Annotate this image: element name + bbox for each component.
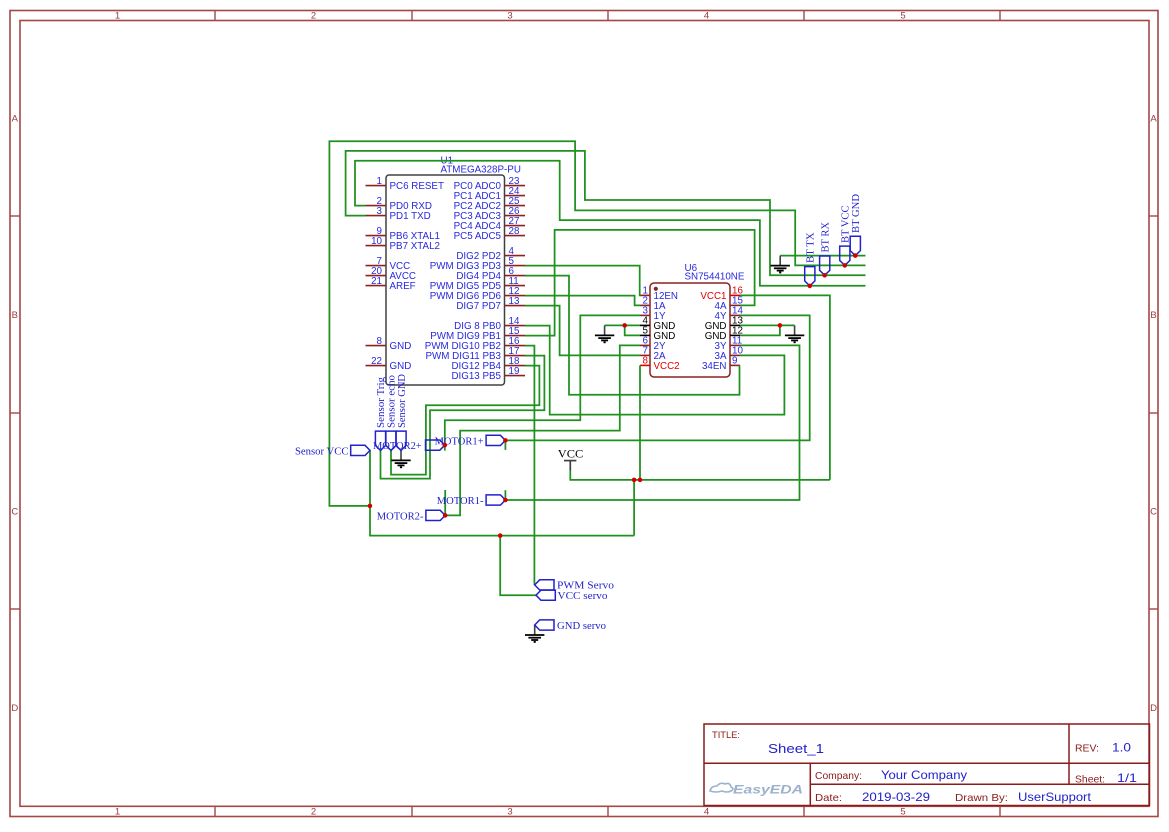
U6 pin 6 2Y [640, 336, 666, 352]
ground near U6 left GND pins [595, 325, 614, 342]
svg-text:D: D [11, 703, 18, 714]
junction Sensor VCC rail [368, 504, 373, 509]
junction BT TX tip [808, 284, 813, 289]
U1 pin 9 PB6 XTAL1 [366, 226, 440, 242]
svg-text:Date:: Date: [815, 792, 842, 804]
wire net 3Y-MOTOR1-: U6 pin11 to MOTOR1- flag [505, 345, 799, 500]
svg-text:8: 8 [643, 356, 649, 367]
svg-text:19: 19 [509, 366, 520, 377]
junction VCC servo branch [498, 533, 503, 538]
junction BT RX tip [822, 273, 827, 278]
svg-text:2: 2 [311, 807, 316, 818]
svg-text:VCC2: VCC2 [654, 361, 680, 372]
wire net PD7-2A: U1 pin13 to U6 pin7 [525, 306, 640, 356]
EasyEDA logo [710, 783, 803, 796]
U1 pin 18 DIG12 PB4 [451, 356, 525, 372]
U1 pin 6 DIG4 PD4 [456, 266, 525, 282]
ground for Sensor GND flag [391, 450, 410, 467]
svg-text:13: 13 [509, 296, 520, 307]
svg-text:21: 21 [371, 276, 382, 287]
svg-text:28: 28 [509, 226, 520, 237]
U1 pin 21 AREF [366, 276, 416, 292]
U6 pin 8 VCC2 [640, 356, 680, 372]
svg-text:BT RX: BT RX [820, 222, 832, 253]
U1 pin 4 DIG2 PD2 [456, 246, 525, 262]
svg-text:Sensor VCC: Sensor VCC [295, 445, 349, 457]
U1 pin 5 PWM DIG3 PD3 [430, 256, 525, 272]
U1 pin 10 PB7 XTAL2 [366, 236, 440, 252]
U1 pin 12 PWM DIG6 PD6 [430, 286, 525, 302]
wire net PB2-PWM_Servo: U1 pin16 to PWM Servo flag [525, 346, 534, 585]
svg-text:3: 3 [377, 206, 383, 217]
wire net VCC1: U6 pin16 to VCC rail [740, 295, 830, 480]
VCC power symbol [558, 449, 584, 471]
svg-text:AREF: AREF [390, 281, 416, 292]
wire stub above MOTOR1- tip [504, 490, 506, 500]
svg-text:MOTOR2+: MOTOR2+ [373, 440, 422, 452]
U6 pin 5 GND [640, 326, 675, 342]
U1 pin 28 PC5 ADC5 [454, 226, 525, 242]
junction U6 left GND [622, 323, 627, 328]
svg-text:Your Company: Your Company [881, 768, 967, 782]
port flag Sensor Trig (rotated) [375, 377, 387, 451]
junction BT VCC tip [843, 263, 848, 268]
svg-text:22: 22 [371, 356, 382, 367]
svg-text:PC6 RESET: PC6 RESET [390, 181, 444, 192]
svg-text:C: C [1150, 507, 1157, 518]
svg-text:VCC: VCC [558, 449, 584, 461]
U1 pin 25 PC2 ADC2 [454, 196, 525, 212]
svg-text:3: 3 [507, 807, 512, 818]
wire net PB3-Sensor_Trig: U1 pin17 to Sensor Trig flag [381, 356, 545, 479]
U6 pin 1 12EN [640, 286, 678, 302]
svg-text:GND: GND [390, 341, 412, 352]
U1 pin 7 VCC [366, 256, 411, 272]
U1 pin 13 DIG7 PD7 [456, 296, 525, 312]
svg-text:5: 5 [900, 11, 905, 22]
svg-text:Company:: Company: [815, 770, 862, 782]
svg-text:A: A [12, 114, 19, 125]
svg-text:3: 3 [507, 11, 512, 22]
port flag BT GND (rotated) [850, 194, 862, 256]
svg-text:2019-03-29: 2019-03-29 [862, 790, 930, 804]
svg-text:34EN: 34EN [702, 361, 727, 372]
wire net BT_TX: U1 PD0 RXD to BT TX flag [355, 161, 866, 286]
svg-text:1: 1 [377, 176, 382, 187]
U6 pin 13 GND [705, 316, 744, 332]
U6 pin 16 VCC1 [700, 286, 743, 302]
wire U6 pin4-pin5 gnd jumper [625, 325, 640, 335]
wire branch to VCC servo flag [500, 536, 536, 596]
U1 pin 15 PWM DIG9 PB1 [430, 326, 525, 342]
wire net BT_VCC: loop left of U1 to BT VCC flag [329, 141, 865, 506]
svg-text:VCC servo: VCC servo [558, 590, 608, 602]
wire U6 right GND pin13 to ground [740, 324, 795, 326]
svg-text:MOTOR2-: MOTOR2- [377, 510, 424, 522]
svg-text:REV:: REV: [1075, 743, 1099, 755]
svg-text:D: D [1150, 703, 1157, 714]
ground near U6 right GND pins [785, 325, 804, 342]
wire net Sensor_VCC: flag down and across [370, 450, 634, 535]
port flag Sensor echo (rotated) [386, 375, 398, 451]
junction MOTOR2+ tip [443, 443, 448, 448]
svg-text:C: C [11, 507, 18, 518]
U1 pin 16 PWM DIG10 PB2 [425, 336, 525, 352]
wire U6 pin13-pin12 gnd jumper [740, 325, 780, 335]
svg-text:DIG13 PB5: DIG13 PB5 [451, 371, 501, 382]
wire net VCC rail from VCC symbol [570, 470, 830, 480]
U6 pin 10 3A [715, 346, 744, 362]
wire net BT_RX: U1 PD1 TXD to BT RX flag [346, 151, 866, 275]
port flag VCC servo [536, 590, 608, 602]
wire net PB1-4A: U1 pin15 to U6 pin15 [525, 230, 755, 336]
svg-text:8: 8 [377, 336, 383, 347]
junction VCC rail at pin8 riser [638, 478, 643, 483]
U1 pin 23 PC0 ADC0 [454, 176, 525, 192]
junction MOTOR1- tip [503, 498, 508, 503]
port flag BT RX (rotated) [820, 222, 832, 275]
U1 pin 24 PC1 ADC1 [454, 186, 525, 202]
U6 pin 14 4Y [715, 306, 744, 322]
junction MOTOR2- tip [443, 513, 448, 518]
IC U1 ATMEGA328P-PU body [386, 175, 505, 385]
junction U6 right GND [778, 323, 783, 328]
junction BT GND tip [853, 253, 858, 258]
wire net 1Y-MOTOR2+: U6 pin3 to MOTOR2+ flag [445, 315, 640, 445]
U1 pin 11 PWM DIG5 PD5 [430, 276, 525, 292]
wire net PB4-Sensor_echo: U1 pin18 to Sensor echo flag [391, 366, 539, 475]
ground for GND servo flag [525, 625, 544, 642]
svg-text:Drawn By:: Drawn By: [955, 792, 1008, 804]
junction VCC rail at x634 [632, 478, 637, 483]
svg-text:MOTOR1+: MOTOR1+ [435, 435, 484, 447]
wire stub below MOTOR2+ tip [444, 445, 446, 451]
svg-text:BT TX: BT TX [805, 232, 817, 263]
U1 pin 22 GND [366, 356, 412, 372]
svg-text:GND servo: GND servo [557, 620, 606, 632]
U1 pin 27 PC4 ADC4 [454, 216, 525, 232]
port flag BT TX (rotated) [805, 232, 817, 285]
wire net PD4-34EN: U1 pin6 to U6 pin9 [525, 276, 740, 395]
svg-text:2: 2 [311, 11, 316, 22]
U1 pin 19 DIG13 PB5 [451, 366, 525, 382]
wire net 2Y-MOTOR2-: U6 pin6 to MOTOR2- flag [445, 345, 640, 515]
IC U6 SN754410NE body [650, 283, 730, 377]
U1 pin 20 AVCC [366, 266, 417, 282]
svg-text:Sheet:: Sheet: [1075, 774, 1105, 786]
title block table [704, 724, 1150, 806]
svg-text:10: 10 [371, 236, 382, 247]
wire net 4Y-MOTOR1+: U6 pin14 to MOTOR1+ flag [505, 315, 809, 440]
port flag Sensor VCC [295, 445, 370, 457]
ground for BT GND net [771, 256, 790, 273]
svg-text:EasyEDA: EasyEDA [733, 785, 803, 797]
svg-text:Sheet_1: Sheet_1 [768, 741, 824, 756]
U6 pin 3 1Y [640, 306, 666, 322]
svg-text:MOTOR1-: MOTOR1- [437, 495, 484, 507]
svg-text:1/1: 1/1 [1117, 771, 1137, 785]
svg-text:PB7 XTAL2: PB7 XTAL2 [390, 241, 440, 252]
svg-text:5: 5 [900, 807, 905, 818]
U6 pin 9 34EN [702, 356, 740, 372]
wire stub above MOTOR2- tip [444, 490, 446, 515]
U1 pin 2 PD0 RXD [366, 196, 432, 212]
port flag BT VCC (rotated) [840, 206, 852, 266]
svg-text:DIG7 PD7: DIG7 PD7 [456, 301, 501, 312]
U1 pin 17 PWM DIG11 PB3 [426, 346, 526, 362]
wire VCC rail branch down [633, 480, 635, 536]
U1 pin 8 GND [366, 336, 412, 352]
U1 pin 26 PC3 ADC3 [454, 206, 525, 222]
U1 pin 3 PD1 TXD [366, 206, 431, 222]
svg-text:1: 1 [115, 11, 120, 22]
wire net PD6-1A: U1 pin12 to U6 pin2 [525, 296, 641, 306]
U1 pin 14 DIG 8 PB0 [454, 316, 525, 332]
U6 pin 12 GND [705, 326, 743, 342]
svg-text:UserSupport: UserSupport [1018, 790, 1092, 804]
svg-text:9: 9 [732, 356, 737, 367]
U6 pin 7 2A [640, 346, 666, 362]
U1 pin 1 PC6 RESET [366, 176, 444, 192]
port flag GND servo [535, 620, 607, 632]
junction MOTOR1+ tip [503, 438, 508, 443]
port flag MOTOR1+ [435, 435, 506, 447]
port flag Sensor GND (rotated) [396, 374, 408, 450]
port flag PWM Servo [535, 580, 615, 592]
svg-text:B: B [1150, 310, 1156, 321]
wire U6 left GND pins to ground [605, 324, 640, 326]
svg-text:1.0: 1.0 [1112, 741, 1131, 755]
svg-text:4: 4 [704, 11, 709, 22]
U6 pin-1 marker dot [654, 287, 658, 291]
port flag MOTOR1- [437, 495, 506, 507]
U6 pin 15 4A [715, 296, 744, 312]
wire net PB0-3A: U1 pin14 to U6 pin10 [525, 326, 784, 415]
svg-text:GND: GND [390, 361, 412, 372]
wire net PD3-12EN: U1 pin5 to U6 pin1 [525, 266, 641, 296]
svg-text:A: A [1150, 114, 1157, 125]
svg-text:Sensor GND: Sensor GND [396, 374, 408, 428]
wire net VCC2: U6 pin8 down to VCC rail [639, 365, 641, 480]
svg-text:BT GND: BT GND [850, 194, 862, 233]
svg-text:PC5 ADC5: PC5 ADC5 [454, 231, 502, 242]
svg-text:B: B [12, 310, 18, 321]
svg-text:1: 1 [115, 807, 120, 818]
U6 pin 2 1A [640, 296, 666, 312]
port flag MOTOR2+ [373, 440, 445, 452]
U6 pin 11 3Y [715, 336, 743, 352]
svg-text:ATMEGA328P-PU: ATMEGA328P-PU [441, 164, 521, 175]
wire net BT_GND: ground to BT GND flag [780, 255, 865, 257]
port flag MOTOR2- [377, 510, 446, 522]
wire stub below MOTOR1+ tip [504, 440, 506, 450]
svg-text:SN754410NE: SN754410NE [685, 271, 745, 282]
svg-text:4: 4 [704, 807, 709, 818]
svg-text:TITLE:: TITLE: [712, 730, 740, 741]
svg-text:PD1 TXD: PD1 TXD [390, 211, 431, 222]
U6 pin 4 GND [640, 316, 675, 332]
